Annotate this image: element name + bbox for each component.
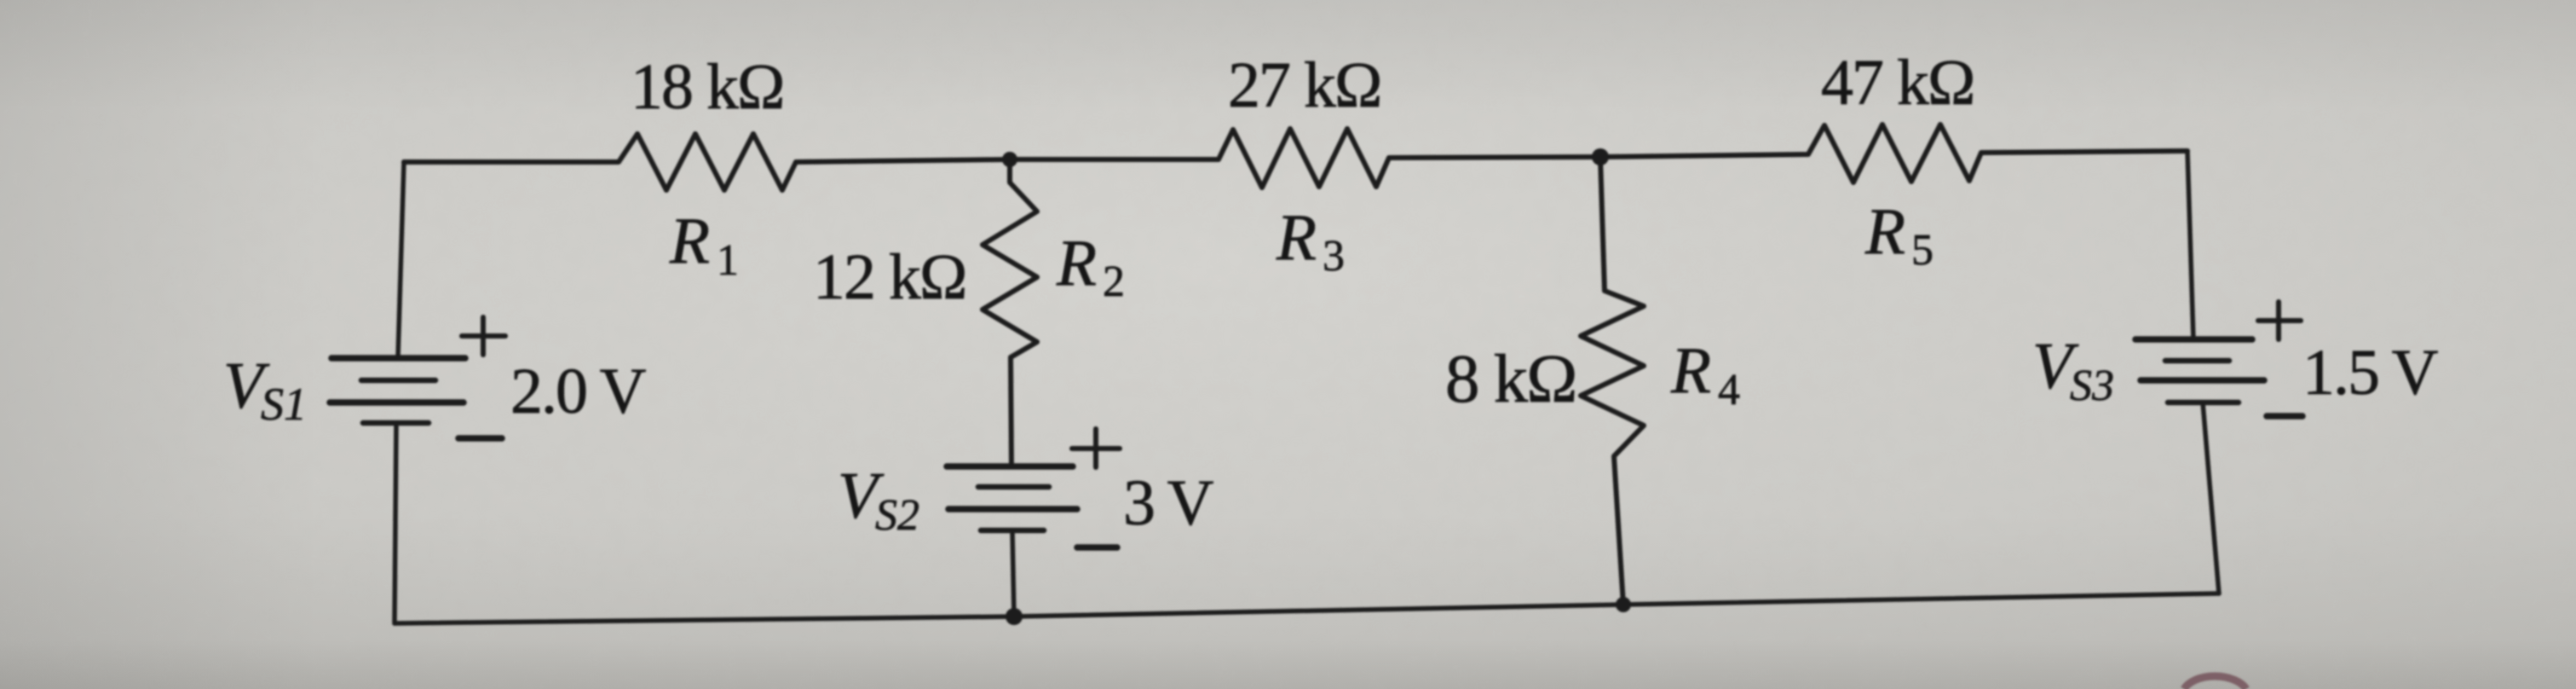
svg-text:1: 1 <box>717 236 739 285</box>
svg-text:47 kΩ: 47 kΩ <box>1821 47 1974 119</box>
svg-text:R: R <box>1276 200 1317 274</box>
svg-text:2.0 V: 2.0 V <box>510 356 647 427</box>
svg-text:2: 2 <box>1103 258 1125 306</box>
svg-text:S3: S3 <box>2070 362 2114 410</box>
svg-text:4: 4 <box>1718 366 1740 414</box>
svg-text:1.5 V: 1.5 V <box>2302 337 2439 408</box>
svg-text:R: R <box>669 204 710 277</box>
svg-text:3 V: 3 V <box>1123 467 1214 539</box>
svg-text:8 kΩ: 8 kΩ <box>1445 340 1576 417</box>
svg-text:27 kΩ: 27 kΩ <box>1228 49 1380 121</box>
svg-text:R: R <box>1864 194 1905 268</box>
svg-text:18 kΩ: 18 kΩ <box>631 51 783 123</box>
svg-text:12 kΩ: 12 kΩ <box>813 241 965 313</box>
svg-text:5: 5 <box>1911 226 1933 275</box>
svg-text:S2: S2 <box>875 491 919 540</box>
svg-text:3: 3 <box>1323 232 1345 281</box>
svg-text:R: R <box>1670 333 1711 407</box>
svg-text:S1: S1 <box>261 379 307 430</box>
svg-text:R: R <box>1056 226 1097 299</box>
